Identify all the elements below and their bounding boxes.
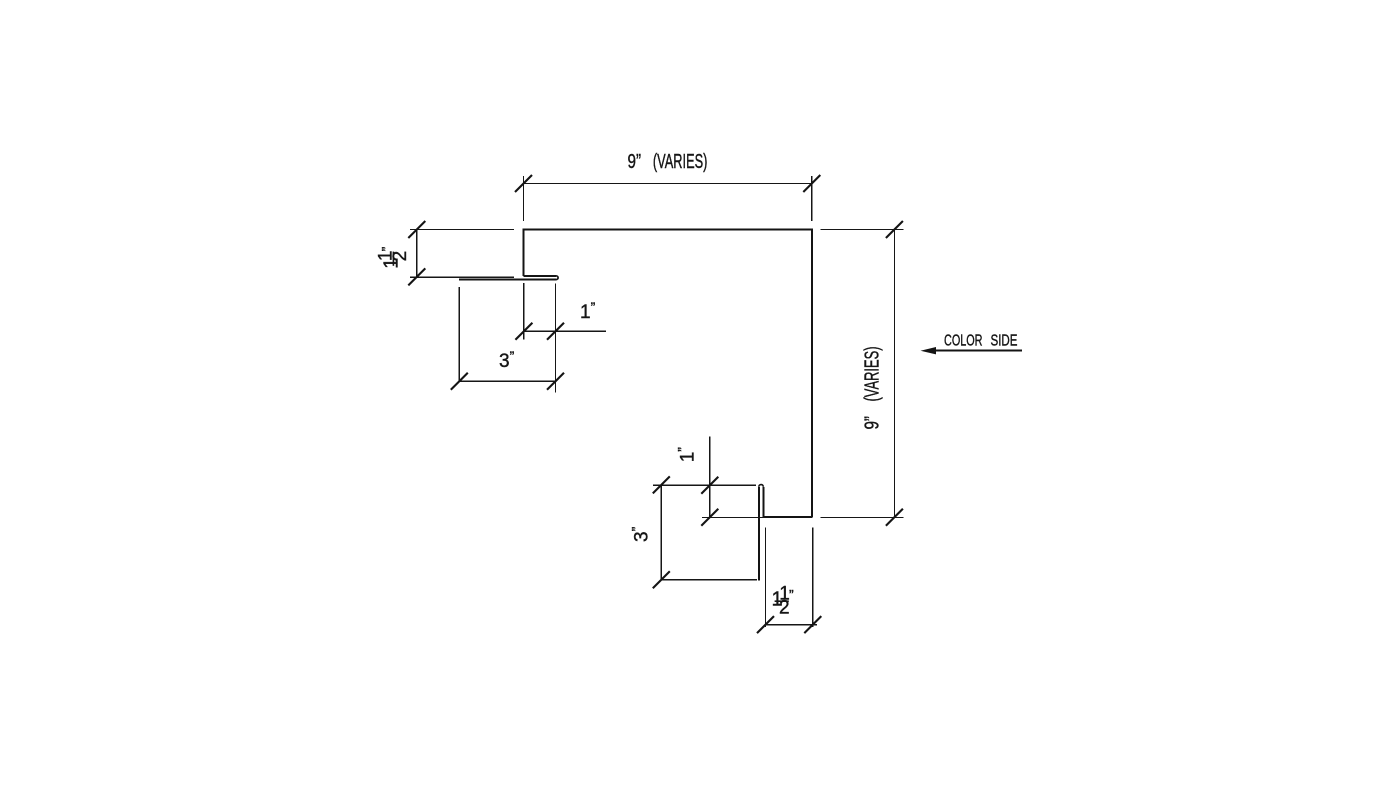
svg-text:”: ”: [379, 246, 395, 251]
wire: 1in bottom lower witness: [702, 516, 763, 518]
node: tick 3in top left: [451, 373, 468, 390]
wire: hem bottom return flap (3 in): [459, 279, 556, 281]
node: tick right dim top: [886, 221, 903, 238]
wire: bottom hem return tail (3 in): [758, 487, 760, 581]
node: tick right dim bottom: [886, 509, 903, 526]
wire: 3in top dimension line: [459, 380, 555, 382]
node: tick 3in bottom lower: [653, 571, 670, 588]
wire: left dim top witness line: [410, 229, 514, 231]
svg-text:SIDE: SIDE: [991, 333, 1018, 350]
wire: profile top face (9 in): [524, 229, 812, 231]
wire: 1.5in bottom dim right witness: [812, 527, 814, 627]
wire: 3in bottom dimension line: [660, 485, 662, 580]
wire: 1in top dim left witness: [523, 283, 525, 340]
wire: left dim bottom witness line: [410, 276, 514, 278]
svg-text:COLOR: COLOR: [944, 333, 983, 350]
wire: right dim bottom witness line: [820, 516, 903, 518]
svg-text:9”: 9”: [628, 151, 642, 173]
node: tick 1in bottom lower: [701, 509, 718, 526]
svg-text:”: ”: [789, 587, 794, 603]
wire: hem top fold line: [524, 275, 556, 277]
wire: profile right face (9 in): [811, 229, 813, 518]
svg-text:(VARIES): (VARIES): [862, 347, 884, 402]
wire: top dimension line 9 in: [524, 183, 812, 185]
svg-text:9”: 9”: [862, 416, 884, 430]
wire: 1.5in bottom dimension line: [766, 624, 818, 626]
wire: profile left leg (1.5 in): [523, 229, 525, 277]
node: tick top dim left: [515, 175, 532, 192]
wire: right dimension line 9 in: [893, 230, 895, 518]
wire: 3in top dim left witness: [458, 287, 460, 381]
wire: top dim left witness line: [523, 176, 525, 221]
wire: profile bottom leg (1.5 in): [763, 516, 812, 518]
label: 1 in bottom, rotated: [674, 447, 698, 463]
wire: 1in top dimension line: [524, 330, 606, 332]
label: 3 in bottom, rotated: [629, 526, 653, 542]
node: tick 3in bottom upper: [653, 476, 670, 493]
svg-text:(VARIES): (VARIES): [653, 151, 708, 173]
node: tick 3in top right: [547, 373, 564, 390]
node: tick left dim top: [408, 221, 425, 238]
label: 1.5 in bottom, stacked fraction: [772, 584, 795, 619]
wire: bottom hem up-leg (1 in): [762, 487, 764, 518]
wire: right dim top witness line: [820, 229, 903, 231]
wire: 1in/3in top dim shared right witness: [555, 283, 557, 392]
wire: left dimension line 1.5 in: [416, 230, 418, 278]
node: tick left dim bottom: [408, 268, 425, 285]
wire: 1.5in bottom dim left witness: [765, 527, 767, 627]
node: color side arrowhead: [921, 347, 937, 354]
wire: 1in bottom dimension line: [709, 437, 711, 518]
wire: 3in bottom lower witness: [661, 579, 757, 581]
label: 1.5 in left, rotated stacked fraction: [376, 246, 411, 268]
wire: hem fold cap (rounded 180 deg): [556, 276, 558, 280]
label: 9 in (VARIES) right, rotated: [862, 347, 884, 430]
node: tick 1in top left: [515, 323, 532, 340]
wire: color side arrow line: [933, 350, 1022, 352]
node: tick 1.5in bottom left: [757, 616, 774, 633]
node: tick 1in bottom upper: [701, 477, 718, 494]
wire: 1in/3in bottom shared top witness: [653, 484, 756, 486]
node: tick 1in top right: [547, 323, 564, 340]
wire: bottom hem fold cap (rounded 180 deg): [759, 485, 764, 487]
node: tick top dim right: [803, 175, 820, 192]
node: tick 1.5in bottom right: [804, 616, 821, 633]
label: 9 in (VARIES) top: [628, 151, 708, 173]
wire: top dim right witness line: [811, 176, 813, 221]
